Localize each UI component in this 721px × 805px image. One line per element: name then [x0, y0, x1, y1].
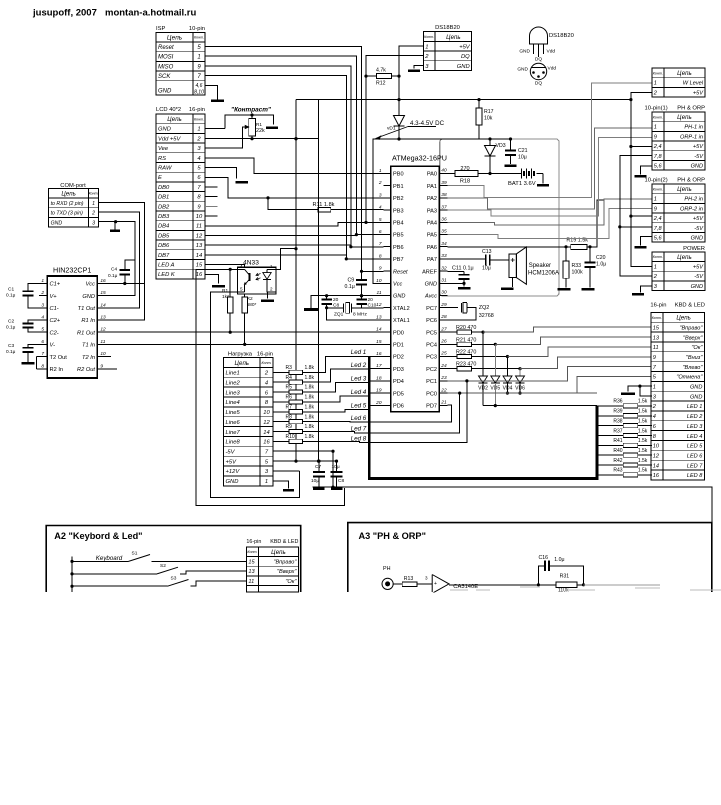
- svg-text:2,4: 2,4: [653, 144, 662, 150]
- wire COM TXD to T1 Out: [99, 212, 140, 308]
- svg-text:ISP: ISP: [156, 26, 165, 32]
- resistor R33 100k: [563, 247, 583, 288]
- wire COM GND: [99, 222, 135, 296]
- ground BAT1: [537, 184, 549, 187]
- capacitor C2 0.1u: [6, 319, 39, 333]
- svg-text:PD0: PD0: [393, 330, 404, 336]
- wire +5V rail: [318, 100, 320, 462]
- svg-text:10μ: 10μ: [482, 266, 491, 272]
- diode VD2: [478, 332, 488, 406]
- wire Led 1 from R3: [302, 356, 369, 372]
- svg-text:GND: GND: [226, 479, 239, 485]
- svg-text:14: 14: [263, 430, 269, 436]
- svg-text:LED 7: LED 7: [687, 463, 703, 469]
- svg-text:1.8k: 1.8k: [305, 375, 315, 381]
- svg-text:4: 4: [41, 315, 44, 321]
- svg-text:24: 24: [440, 363, 447, 369]
- connector LCD 40*2 16-pin table: [156, 107, 205, 279]
- svg-text:8: 8: [379, 253, 382, 259]
- svg-text:10-pin(1): 10-pin(1): [645, 106, 668, 112]
- svg-text:28: 28: [440, 314, 447, 320]
- svg-text:PB1: PB1: [393, 184, 404, 190]
- svg-text:C2+: C2+: [50, 318, 61, 324]
- wire LCD DB7 to PB7: [205, 254, 346, 256]
- wire Led 5 from R7: [302, 410, 369, 412]
- resistor R40 1.5k: [597, 448, 652, 457]
- svg-text:8: 8: [41, 363, 44, 369]
- svg-text:PC4: PC4: [426, 343, 437, 349]
- svg-text:7: 7: [41, 351, 44, 357]
- svg-text:13: 13: [248, 569, 255, 575]
- svg-text:-5V: -5V: [694, 274, 704, 280]
- capacitor C16 1.0u: [537, 555, 585, 586]
- svg-text:Line3: Line3: [226, 390, 241, 396]
- wire keyboard row 1: [483, 327, 652, 332]
- svg-text:LED 6: LED 6: [687, 453, 703, 459]
- svg-text:C4: C4: [111, 267, 117, 273]
- svg-text:ZQ1: ZQ1: [334, 312, 344, 318]
- svg-text:Line4: Line4: [226, 400, 240, 406]
- svg-text:4N33: 4N33: [243, 260, 259, 267]
- svg-text:R37: R37: [613, 428, 622, 434]
- svg-text:Vcc: Vcc: [393, 282, 403, 288]
- svg-text:C13: C13: [482, 249, 492, 255]
- svg-text:GND: GND: [158, 127, 171, 133]
- svg-text:ORP-2 in: ORP-2 in: [680, 206, 703, 212]
- diode VD6: [515, 369, 525, 393]
- svg-text:R39: R39: [613, 409, 622, 415]
- svg-text:"Отмена": "Отмена": [676, 375, 703, 381]
- ground LED K: [212, 285, 225, 288]
- wire +4V rail to Vcc: [373, 139, 511, 283]
- svg-text:AREF: AREF: [422, 269, 438, 275]
- ground C8b: [331, 488, 343, 491]
- wire ORP-1 to PA3: [448, 138, 653, 216]
- op-amp CA3140E: [425, 575, 538, 594]
- svg-text:E: E: [158, 175, 162, 181]
- wire ISP SCK to PB7: [205, 76, 384, 259]
- svg-text:C1-: C1-: [50, 306, 59, 312]
- capacitor C9 0.1u: [345, 270, 368, 298]
- svg-text:Конт.: Конт.: [194, 117, 204, 121]
- svg-text:9: 9: [653, 355, 656, 361]
- wire LCD DB1 stub: [205, 196, 218, 198]
- ground ISP: [211, 99, 224, 102]
- capacitor C20 1.0u: [585, 247, 607, 288]
- wire ISP MOSI to PB5: [205, 56, 384, 234]
- resistor R31 110k: [538, 574, 660, 594]
- svg-text:10-pin: 10-pin: [189, 26, 205, 32]
- capacitor C7 10u: [311, 461, 325, 487]
- resistor R23 470: [448, 362, 477, 371]
- svg-text:PC5: PC5: [426, 330, 437, 336]
- ground C3: [22, 362, 35, 365]
- svg-text:"Вниз": "Вниз": [686, 355, 704, 361]
- wire LCD RS to PB0: [205, 158, 384, 174]
- ground C11: [458, 287, 471, 290]
- svg-text:10: 10: [196, 214, 203, 220]
- svg-text:GND: GND: [690, 385, 702, 391]
- wire LCD DB5 to PB5: [205, 235, 356, 237]
- resistor R3 1.8k: [273, 365, 314, 375]
- svg-text:Цепь: Цепь: [446, 34, 461, 41]
- svg-text:GND: GND: [691, 236, 703, 242]
- svg-text:+5V: +5V: [693, 265, 704, 271]
- svg-text:1.0μ: 1.0μ: [554, 557, 564, 563]
- svg-text:montan-a.hotmail.ru: montan-a.hotmail.ru: [105, 8, 197, 19]
- wire Led 2 MCU side: [369, 368, 383, 370]
- svg-text:30: 30: [441, 290, 447, 296]
- svg-text:C2: C2: [8, 319, 14, 325]
- wire T2 In stub: [105, 356, 111, 358]
- svg-text:+5V: +5V: [693, 144, 704, 150]
- svg-text:R2 Out: R2 Out: [77, 367, 95, 373]
- svg-text:PA3: PA3: [427, 208, 437, 214]
- svg-text:C2-: C2-: [50, 330, 59, 336]
- svg-text:PD6: PD6: [393, 404, 404, 410]
- resistor R18 270: [448, 166, 491, 185]
- svg-text:Цепь: Цепь: [677, 70, 692, 77]
- svg-text:Конт.: Конт.: [194, 36, 204, 40]
- svg-text:W Level: W Level: [683, 81, 704, 87]
- svg-text:GND: GND: [691, 164, 703, 170]
- speaker HCM1206A: [509, 247, 559, 287]
- svg-text:R17: R17: [484, 109, 494, 115]
- module box battery-speaker: [440, 139, 559, 296]
- ground C20: [582, 288, 595, 291]
- svg-text:HIN232CP1: HIN232CP1: [53, 266, 91, 275]
- switch S2: [72, 563, 246, 574]
- svg-text:1.5k: 1.5k: [638, 448, 648, 454]
- svg-text:16: 16: [263, 440, 270, 446]
- svg-text:PA0: PA0: [427, 172, 437, 178]
- resistor R20 470: [448, 325, 477, 334]
- svg-text:15: 15: [196, 263, 203, 269]
- wire 4N33 pin4 down around: [196, 269, 344, 505]
- wire Led 7 from R9: [302, 432, 369, 433]
- svg-text:GND: GND: [51, 220, 63, 226]
- wire Led 4 from R6: [302, 396, 369, 402]
- svg-text:PB3: PB3: [393, 208, 404, 214]
- svg-text:1.5k: 1.5k: [638, 438, 648, 444]
- svg-text:37: 37: [441, 204, 447, 210]
- wire COM RXD to R1 In: [99, 202, 145, 320]
- switch S3: [72, 575, 246, 586]
- wire KBD GND3: [640, 386, 652, 396]
- svg-text:Led 1: Led 1: [351, 349, 366, 356]
- connector PH jack: [382, 566, 402, 590]
- svg-text:0.1μ: 0.1μ: [6, 349, 16, 355]
- svg-text:T2 Out: T2 Out: [50, 355, 68, 361]
- svg-text:A2 "Keybord & Led": A2 "Keybord & Led": [54, 531, 142, 541]
- svg-text:Конт.: Конт.: [653, 255, 663, 259]
- resistor R7 1.8k: [273, 404, 314, 414]
- ground speaker: [501, 288, 514, 291]
- svg-text:PC0: PC0: [426, 391, 437, 397]
- svg-text:10: 10: [376, 278, 382, 284]
- diode VD1: [387, 116, 405, 140]
- ground XTAL: [304, 308, 318, 311]
- wire R1 Out to PD0: [105, 331, 383, 333]
- svg-text:PH-1 in: PH-1 in: [684, 125, 703, 131]
- ground C21: [505, 165, 517, 168]
- svg-text:to RXD (2 pin): to RXD (2 pin): [51, 201, 84, 207]
- svg-text:DB6: DB6: [158, 243, 170, 249]
- svg-text:Line5: Line5: [226, 410, 241, 416]
- svg-text:DQ: DQ: [535, 81, 542, 87]
- svg-text:R2 In: R2 In: [50, 367, 64, 373]
- connector PH & ORP (1) table: [645, 106, 706, 171]
- svg-text:1.8k: 1.8k: [305, 414, 315, 420]
- resistor R38 1.5k: [597, 418, 652, 427]
- wire Led 3 from R5: [302, 383, 369, 393]
- svg-text:DB1: DB1: [158, 195, 169, 201]
- wire Led 2 from R4: [302, 369, 369, 382]
- svg-text:13: 13: [196, 243, 203, 249]
- wire PH1 +5V: [631, 146, 652, 148]
- svg-text:PB5: PB5: [393, 233, 404, 239]
- battery BAT1 3.6V: [490, 169, 543, 187]
- svg-text:15: 15: [376, 339, 382, 345]
- ground PH2: [635, 246, 647, 249]
- svg-text:25: 25: [440, 351, 447, 357]
- svg-text:PC2: PC2: [426, 367, 437, 373]
- svg-text:5,6: 5,6: [654, 236, 663, 242]
- capacitor C10 20: [356, 296, 376, 309]
- svg-text:0.1μ: 0.1μ: [6, 325, 16, 331]
- svg-text:1: 1: [654, 81, 657, 87]
- svg-text:"Вверх": "Вверх": [277, 569, 297, 575]
- svg-text:R33: R33: [572, 263, 582, 269]
- wire LCD Vee to pot wiper: [205, 127, 244, 148]
- svg-text:1.5k: 1.5k: [638, 428, 648, 434]
- svg-text:PA5: PA5: [427, 233, 437, 239]
- svg-text:0.1μ: 0.1μ: [6, 293, 16, 299]
- svg-text:Vdd: Vdd: [548, 66, 557, 72]
- resistor R4 1.8k: [273, 375, 314, 385]
- svg-text:C1: C1: [8, 287, 14, 293]
- svg-text:R43: R43: [613, 468, 622, 474]
- svg-text:1.8k: 1.8k: [305, 424, 315, 430]
- wire W Level +5V: [631, 93, 652, 100]
- wire 4N33 pin4: [196, 268, 237, 270]
- svg-text:12: 12: [196, 233, 203, 239]
- svg-text:LED 3: LED 3: [687, 424, 703, 430]
- svg-text:-5V: -5V: [226, 450, 236, 456]
- connector COM-port table: [49, 183, 99, 227]
- connector ISP 10-pin table: [156, 26, 205, 95]
- svg-text:LED 1: LED 1: [687, 404, 703, 410]
- svg-text:CA3140E: CA3140E: [453, 584, 478, 590]
- svg-text:Цепь: Цепь: [271, 549, 286, 556]
- wire ISP MISO to PB6: [205, 66, 384, 247]
- svg-text:SCK: SCK: [158, 74, 171, 80]
- svg-text:C1+: C1+: [50, 282, 61, 288]
- wire HIN232 Vcc: [105, 282, 144, 284]
- svg-text:39: 39: [441, 180, 447, 186]
- svg-text:T1 Out: T1 Out: [78, 306, 96, 312]
- svg-text:12: 12: [653, 453, 660, 459]
- op-amp U2 HIN232CP1: [39, 266, 106, 379]
- connector A2 KBD & LED table: [246, 539, 298, 592]
- wire +5V vertical x296: [295, 100, 297, 462]
- svg-text:9: 9: [100, 363, 103, 369]
- capacitor C1 0.1u: [6, 283, 39, 307]
- svg-text:1.5k: 1.5k: [638, 468, 648, 474]
- svg-text:R41: R41: [613, 438, 622, 444]
- svg-text:V-: V-: [50, 343, 56, 349]
- resistor R12 4.7k: [366, 68, 401, 87]
- svg-text:PD7: PD7: [426, 404, 437, 410]
- ground PH1: [635, 175, 647, 178]
- svg-text:PD1: PD1: [393, 343, 404, 349]
- svg-text:1.8k: 1.8k: [305, 434, 315, 440]
- wire ISP Reset to MCU: [205, 47, 384, 272]
- svg-text:C21: C21: [518, 148, 528, 154]
- svg-text:BAT1 3.6V: BAT1 3.6V: [508, 181, 536, 187]
- wire T2 Out stub: [37, 356, 40, 358]
- svg-text:1.0μ: 1.0μ: [596, 262, 606, 268]
- wire keyboard Отмена PC0: [448, 392, 597, 394]
- svg-text:1.8k: 1.8k: [305, 404, 315, 410]
- wire Led 3 MCU side: [369, 380, 383, 382]
- svg-text:R18: R18: [460, 179, 470, 185]
- svg-text:LCD 40*2: LCD 40*2: [156, 107, 181, 113]
- svg-text:16-pin: 16-pin: [650, 303, 666, 309]
- svg-text:R13: R13: [404, 576, 414, 582]
- diode VD5: [490, 344, 500, 405]
- svg-text:T2 In: T2 In: [82, 355, 95, 361]
- svg-text:R1 In: R1 In: [81, 318, 95, 324]
- svg-text:GND: GND: [158, 88, 172, 94]
- svg-text:Цепь: Цепь: [677, 114, 692, 121]
- svg-text:Speaker: Speaker: [529, 263, 551, 269]
- svg-text:"Влево": "Влево": [683, 365, 704, 371]
- wire PC2 to keyboard: [472, 368, 521, 370]
- svg-text:vD1: vD1: [387, 126, 396, 132]
- svg-text:LED K: LED K: [158, 272, 176, 278]
- svg-text:Конт.: Конт.: [653, 71, 663, 75]
- svg-text:15: 15: [248, 560, 255, 566]
- wire LCD LED A to R2: [205, 265, 245, 297]
- svg-text:Line6: Line6: [226, 420, 241, 426]
- wire keyboard row 3: [508, 347, 653, 357]
- svg-text:1: 1: [653, 385, 656, 391]
- svg-text:R40: R40: [613, 448, 622, 454]
- resistor R37 1.5k: [597, 428, 652, 437]
- label 4.3-4.5V DC: [376, 120, 445, 140]
- svg-text:Цепь: Цепь: [676, 315, 691, 322]
- svg-text:1.8k: 1.8k: [305, 365, 315, 371]
- capacitor C8 20: [321, 296, 383, 320]
- resistor R17 10k: [476, 100, 494, 140]
- resistor R22 470: [448, 350, 477, 359]
- svg-text:Reset: Reset: [158, 45, 174, 51]
- svg-text:27: 27: [440, 326, 447, 332]
- svg-text:11: 11: [653, 345, 659, 351]
- wire diode bus y393: [506, 392, 509, 395]
- svg-text:1.5k: 1.5k: [638, 399, 648, 405]
- svg-text:DQ: DQ: [461, 54, 470, 60]
- svg-text:16-pin: 16-pin: [246, 539, 261, 545]
- svg-text:38: 38: [441, 192, 447, 198]
- svg-text:Led 2: Led 2: [351, 362, 367, 369]
- svg-text:26: 26: [440, 339, 447, 345]
- svg-text:GND: GND: [519, 49, 530, 55]
- svg-text:3: 3: [41, 302, 44, 308]
- ground KBD: [621, 393, 635, 396]
- svg-text:Led 4: Led 4: [351, 389, 367, 396]
- svg-text:5: 5: [240, 287, 243, 292]
- resistor R41 1.5k: [597, 438, 652, 447]
- crystal ZQ1 8 MHz: [325, 303, 384, 318]
- resistor R11 1.8k: [266, 196, 383, 212]
- svg-text:32768: 32768: [479, 313, 494, 319]
- svg-text:ZQ2: ZQ2: [479, 305, 489, 311]
- svg-text:Цепь: Цепь: [167, 34, 182, 41]
- svg-text:11: 11: [196, 224, 202, 230]
- svg-text:R1: R1: [222, 288, 228, 294]
- svg-text:Конт.: Конт.: [261, 361, 271, 365]
- svg-text:C16: C16: [539, 555, 549, 561]
- wire PH1 GND: [641, 166, 653, 175]
- svg-text:Цепь: Цепь: [167, 116, 182, 123]
- svg-text:GND: GND: [691, 284, 703, 290]
- svg-text:10k: 10k: [484, 116, 493, 122]
- svg-text:32: 32: [441, 265, 447, 271]
- svg-text:10μ: 10μ: [518, 155, 527, 161]
- svg-text:"Контраст": "Контраст": [231, 107, 272, 114]
- module A3 PH & ORP box: [348, 523, 712, 592]
- wire ORP-2 to PA5: [448, 209, 653, 239]
- svg-text:PA1: PA1: [427, 184, 437, 190]
- wire load GND: [273, 481, 289, 489]
- svg-text:40: 40: [441, 168, 447, 174]
- svg-text:DB7: DB7: [158, 253, 170, 259]
- svg-text:23: 23: [440, 375, 447, 381]
- svg-text:PB4: PB4: [393, 221, 404, 227]
- svg-text:LED 4: LED 4: [687, 434, 703, 440]
- resistor R43 1.5k: [597, 468, 652, 477]
- svg-text:HCM1206A: HCM1206A: [528, 271, 559, 277]
- svg-text:POWER: POWER: [683, 246, 705, 252]
- svg-text:Line2: Line2: [226, 380, 241, 386]
- svg-text:PB7: PB7: [393, 257, 404, 263]
- svg-text:2: 2: [270, 287, 273, 292]
- wire DS18B20 +5V down: [399, 46, 423, 116]
- capacitor C21 10u: [505, 139, 528, 164]
- optocoupler U3 4N33: [237, 260, 276, 294]
- svg-text:5: 5: [379, 217, 382, 223]
- svg-text:PC7: PC7: [426, 306, 437, 312]
- svg-text:DB5: DB5: [158, 233, 170, 239]
- wire LCD DB6 to PB6: [205, 244, 351, 246]
- svg-text:KBD & LED: KBD & LED: [270, 539, 298, 545]
- svg-text:14: 14: [653, 463, 659, 469]
- svg-text:Vdd: Vdd: [547, 49, 556, 55]
- resistor R1* 1k: [222, 268, 233, 334]
- svg-text:R36: R36: [613, 399, 622, 405]
- svg-text:1.8k: 1.8k: [305, 395, 315, 401]
- svg-text:V+: V+: [50, 294, 58, 300]
- resistor R42 1.5k: [597, 458, 652, 467]
- svg-text:PH & ORP: PH & ORP: [677, 106, 705, 112]
- wire 4N33 pin2 to ground: [268, 292, 277, 299]
- svg-text:11: 11: [248, 579, 254, 585]
- wire load +5V row: [273, 460, 337, 462]
- svg-text:16: 16: [653, 473, 660, 479]
- svg-text:14: 14: [100, 302, 106, 308]
